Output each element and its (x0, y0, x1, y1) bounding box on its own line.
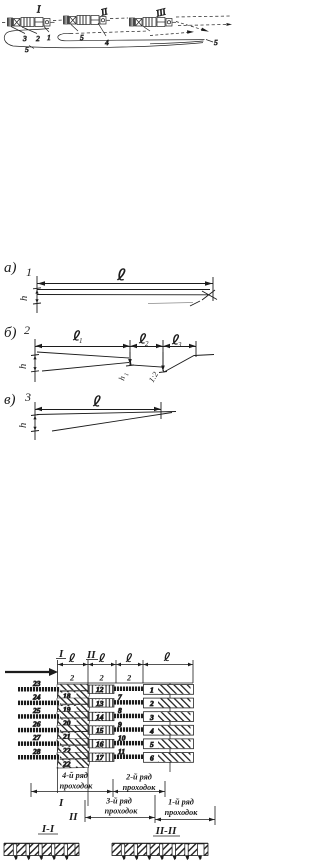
transition hatch band (57, 752, 88, 758)
strip row 25 (18, 706, 194, 728)
label l2 (139, 334, 145, 343)
label l span2 (99, 654, 104, 662)
dimension line l (37, 283, 213, 285)
strip row 24 (18, 692, 194, 714)
extension line right (212, 277, 214, 301)
strip row 23 (18, 679, 194, 701)
B hatch cell 21 (57, 732, 90, 741)
underline II (86, 659, 98, 661)
svg-text:9: 9 (118, 720, 122, 729)
svg-text:3-й ряд: 3-й ряд (105, 797, 132, 806)
svg-text:5: 5 (150, 740, 154, 749)
extension lines (35, 402, 161, 440)
h1 dim at step (129, 352, 131, 365)
A bar 23 (18, 687, 60, 692)
svg-text:10: 10 (118, 733, 126, 742)
svg-text:проходок: проходок (105, 807, 139, 816)
B hatch cell 22 (57, 759, 90, 768)
svg-text:14: 14 (96, 712, 104, 721)
svg-text:3: 3 (177, 341, 182, 349)
svg-text:h: h (18, 364, 29, 369)
svg-text:25: 25 (32, 706, 41, 715)
D bar (114, 755, 143, 760)
svg-text:12: 12 (96, 685, 104, 694)
svg-text:3: 3 (22, 34, 27, 43)
row of 2-cells (58, 682, 194, 684)
dimension line top (58, 664, 194, 666)
A bar 25 (18, 714, 60, 719)
svg-text:а): а) (4, 260, 17, 276)
svg-text:28: 28 (32, 747, 41, 756)
E cell 4 (144, 725, 194, 735)
svg-text:h: h (19, 296, 30, 301)
D bar (114, 727, 143, 732)
svg-text:1: 1 (150, 686, 154, 695)
section I-I view (4, 844, 79, 861)
label l span3 (126, 654, 131, 662)
svg-text:3: 3 (149, 713, 154, 722)
A bar 27 (18, 741, 60, 746)
dimension line (35, 346, 196, 348)
machine I (8, 18, 55, 27)
svg-text:4: 4 (105, 38, 109, 47)
h2 dim at step 2 (162, 352, 164, 371)
label l span1 (69, 654, 74, 662)
extension ticks top dimension (58, 660, 194, 683)
svg-text:2: 2 (126, 673, 132, 683)
D bar (114, 714, 143, 719)
svg-text:6: 6 (150, 754, 154, 763)
svg-text:б): б) (4, 325, 17, 341)
transition hatch band (57, 739, 88, 745)
svg-text:17: 17 (96, 753, 104, 762)
svg-text:5: 5 (25, 45, 29, 54)
right end tick (190, 301, 200, 306)
C cell 16 (88, 739, 114, 748)
leader line machine III (144, 27, 150, 31)
svg-text:13: 13 (96, 699, 104, 708)
svg-text:4: 4 (149, 726, 154, 735)
leader lines machine I (11, 27, 49, 34)
svg-text:проходок: проходок (60, 782, 94, 791)
B hatch cell 20 (57, 718, 90, 727)
dashed travel line lower right (178, 25, 227, 26)
section II-II view (112, 844, 208, 861)
D bar (114, 700, 143, 705)
machine III (130, 18, 177, 27)
C cell 15 (88, 726, 114, 735)
bar top line (37, 289, 210, 291)
strip row 28 (18, 747, 194, 769)
svg-text:5: 5 (214, 38, 218, 47)
A bar 28 (18, 755, 60, 760)
svg-text:15: 15 (96, 726, 104, 735)
svg-text:проходок: проходок (123, 783, 157, 792)
faint ground line (148, 303, 193, 304)
right end cross (202, 290, 217, 300)
svg-text:22: 22 (62, 759, 71, 768)
D bar (114, 741, 143, 746)
svg-text:27: 27 (32, 733, 41, 742)
label h1 rotated (116, 371, 130, 382)
dimension line (35, 409, 161, 411)
svg-text:I: I (36, 5, 41, 16)
bar bottom line (37, 294, 208, 296)
svg-text:16: 16 (96, 740, 104, 749)
svg-text:24: 24 (32, 692, 41, 701)
svg-text:2: 2 (149, 699, 154, 708)
svg-text:1: 1 (47, 33, 51, 42)
bottom dim upper: 4th row span (31, 779, 165, 797)
leader lines machine II (71, 23, 106, 36)
h dim left (31, 415, 39, 432)
surface lines (37, 412, 176, 415)
B hatch cell 22 (57, 745, 90, 754)
extension line left (36, 276, 38, 313)
h dim left (31, 355, 39, 372)
E cell 5 (144, 739, 194, 749)
svg-text:4-й ряд: 4-й ряд (61, 771, 88, 780)
svg-text:5: 5 (80, 33, 84, 42)
transition hatch band (57, 698, 88, 704)
strip row 26 (18, 720, 194, 742)
machine II (64, 16, 111, 25)
svg-text:I-I: I-I (41, 823, 55, 835)
D bar (114, 687, 143, 692)
transition hatch band (57, 725, 88, 731)
dashed arrow mid right (150, 32, 190, 35)
surface profile (37, 352, 129, 358)
svg-text:2-й ряд: 2-й ряд (125, 773, 152, 782)
section line II vertical (87, 683, 89, 806)
dashed travel line upper (2, 16, 231, 23)
big return loop left (4, 29, 203, 48)
E cell 1 (144, 685, 194, 695)
svg-text:II: II (68, 811, 78, 823)
vertical guide line (169, 683, 171, 772)
A bar 24 (18, 701, 60, 706)
svg-text:7: 7 (118, 693, 122, 702)
svg-text:проходок: проходок (165, 808, 199, 817)
E cell 3 (144, 712, 194, 722)
svg-text:23: 23 (32, 679, 41, 688)
label l (117, 269, 124, 280)
C cell 14 (88, 712, 114, 721)
cross-section ground strip (4, 843, 79, 845)
B hatch cell 19 (57, 704, 90, 713)
svg-text:11: 11 (118, 747, 125, 756)
strip row 27 (18, 733, 194, 755)
svg-text:2: 2 (99, 673, 105, 683)
entry arrow (5, 671, 49, 673)
label l span4 (164, 653, 169, 661)
C cell 17 (88, 753, 114, 762)
section line I vertical (57, 683, 59, 793)
svg-text:8: 8 (118, 706, 122, 715)
label l (93, 396, 100, 406)
inner loop near machine II (58, 33, 205, 40)
svg-text:в): в) (4, 392, 16, 408)
dashed diagonal from machine III (176, 22, 205, 31)
svg-text:I: I (58, 797, 64, 809)
C cell 12 (88, 685, 114, 694)
label l3 (172, 335, 178, 344)
C cell 13 (88, 699, 114, 708)
svg-text:II-II: II-II (155, 825, 178, 837)
svg-text:2: 2 (24, 323, 30, 337)
bottom dim lower: 3rd and 1st row spans (85, 795, 215, 825)
cross-section ground strip (112, 843, 208, 845)
svg-text:2: 2 (145, 340, 149, 348)
transition hatch band (57, 712, 88, 718)
svg-text:3: 3 (24, 390, 31, 404)
svg-text:26: 26 (32, 720, 41, 729)
underline I (56, 658, 66, 660)
A bar 26 (18, 728, 60, 733)
svg-text:h: h (18, 423, 29, 428)
label l1 (73, 331, 79, 340)
svg-text:2: 2 (36, 34, 40, 43)
E cell 6 (144, 753, 194, 763)
svg-text:1: 1 (79, 337, 83, 345)
transition hatch band (57, 684, 88, 690)
converging lines right (150, 41, 204, 44)
svg-text:1-й ряд: 1-й ряд (168, 798, 194, 807)
svg-text:1: 1 (26, 265, 32, 279)
extension lines (35, 339, 196, 382)
svg-text:2: 2 (69, 673, 75, 683)
E cell 2 (144, 698, 194, 708)
B hatch cell 18 (57, 691, 90, 700)
h dimension left (33, 288, 41, 304)
